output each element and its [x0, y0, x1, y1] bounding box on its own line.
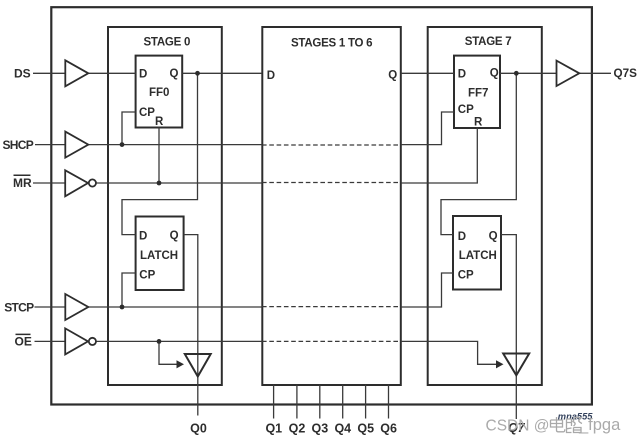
svg-text:D: D [458, 231, 466, 243]
svg-text:CP: CP [139, 107, 155, 119]
svg-text:Q3: Q3 [312, 422, 329, 436]
svg-text:Q: Q [388, 69, 397, 81]
svg-text:Q5: Q5 [357, 422, 374, 436]
svg-text:Q2: Q2 [289, 422, 306, 436]
svg-text:Q4: Q4 [334, 422, 351, 436]
svg-text:D: D [139, 68, 147, 80]
svg-text:D: D [458, 68, 466, 80]
svg-text:CP: CP [458, 269, 474, 281]
svg-text:CP: CP [139, 269, 155, 281]
svg-text:MR: MR [13, 176, 32, 190]
svg-text:Q: Q [490, 68, 499, 80]
svg-text:STAGE 0: STAGE 0 [144, 36, 191, 48]
svg-text:LATCH: LATCH [140, 250, 178, 262]
svg-text:CSDN @: CSDN @ [486, 418, 550, 435]
svg-text:FF0: FF0 [149, 87, 169, 99]
svg-text:CP: CP [458, 104, 474, 116]
svg-text:D: D [139, 231, 147, 243]
svg-text:R: R [474, 117, 483, 129]
svg-text:Q0: Q0 [190, 422, 207, 436]
svg-text:Q: Q [489, 231, 498, 243]
svg-text:R: R [155, 116, 164, 128]
svg-text:Q1: Q1 [265, 422, 282, 436]
svg-text:D: D [267, 70, 275, 82]
svg-text:STAGES 1 TO 6: STAGES 1 TO 6 [291, 37, 372, 49]
svg-text:Q: Q [170, 68, 179, 80]
svg-text:Q7S: Q7S [614, 67, 638, 80]
svg-text:STAGE 7: STAGE 7 [465, 36, 512, 48]
svg-text:OE: OE [15, 335, 32, 349]
svg-text:_fpga: _fpga [578, 416, 621, 434]
svg-text:Q6: Q6 [380, 422, 397, 436]
svg-text:STCP: STCP [4, 300, 34, 314]
svg-text:SHCP: SHCP [3, 138, 34, 152]
svg-text:LATCH: LATCH [459, 250, 497, 262]
svg-text:DS: DS [14, 67, 31, 81]
svg-text:Q: Q [170, 230, 179, 242]
svg-text:FF7: FF7 [468, 88, 488, 100]
